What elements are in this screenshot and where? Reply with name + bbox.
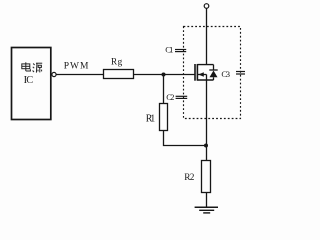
svg-text:PWM: PWM: [64, 62, 89, 72]
wire R2 to ground: [206, 193, 208, 208]
capacitor C3: [236, 72, 245, 75]
diode cathode bar: [209, 69, 217, 71]
diode triangle (anode): [210, 71, 218, 78]
wire R1 bottom to source node: [164, 131, 207, 146]
arrow head pointing left: [198, 72, 204, 77]
source arrow line: [198, 74, 207, 76]
junction gate node: [162, 73, 166, 77]
wire gate node down to R1: [163, 75, 165, 104]
power IC box U1: [12, 48, 51, 120]
channel bar: [196, 64, 198, 81]
MOSFET Q1: [195, 64, 218, 81]
label 源 (yuan): [33, 63, 43, 72]
body diode branch: [213, 65, 215, 70]
svg-text:C3: C3: [221, 69, 230, 79]
svg-text:R2: R2: [184, 173, 194, 183]
wire drain from terminal to MOSFET: [206, 8, 208, 65]
wire PWM output to Rg: [56, 74, 103, 76]
resistor Rg: [104, 70, 134, 79]
capacitor C1: [175, 50, 186, 52]
svg-text:C2: C2: [166, 92, 174, 102]
svg-text:R1: R1: [146, 113, 156, 124]
node PWM pin circle: [52, 72, 56, 76]
svg-text:Rg: Rg: [111, 56, 123, 66]
source lead: [197, 79, 213, 81]
terminal drain top circle: [204, 4, 209, 9]
capacitor C2: [176, 96, 188, 98]
label 电 (dian): [22, 62, 31, 71]
junction source node: [204, 144, 208, 148]
ground: [195, 207, 218, 213]
wire source down to R2: [206, 80, 208, 161]
resistor R2: [202, 161, 211, 193]
wire Rg to gate: [134, 74, 196, 76]
svg-text:IC: IC: [24, 75, 34, 86]
gate bar: [194, 64, 196, 81]
svg-text:C1: C1: [165, 44, 173, 54]
drain lead: [197, 64, 213, 66]
resistor R1: [160, 104, 168, 131]
dashed box MOSFET package: [184, 27, 241, 119]
